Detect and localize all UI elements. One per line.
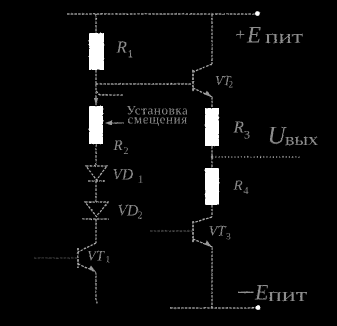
node -E terminal (256, 305, 261, 310)
wire: node A to VT2 base (96, 83, 192, 85)
wire: VT2 emitter to R3 (211, 97, 213, 108)
resistor R1 (89, 33, 104, 70)
svg-text:3: 3 (244, 128, 250, 142)
label R4 (233, 178, 249, 197)
wire: VD1 to VD2 (95, 181, 97, 202)
resistor R4 (205, 168, 219, 205)
wire output line Uout (212, 156, 301, 158)
svg-text:1: 1 (138, 175, 143, 186)
svg-text:+: + (236, 25, 246, 44)
transistor VT3 (193, 217, 212, 247)
wire top rail +E (67, 13, 258, 15)
wire: VT3 emitter to bottom rail (211, 247, 213, 308)
svg-text:VT: VT (87, 249, 105, 265)
wire: VT1 emitter to bottom end (95, 272, 97, 301)
label VT2 (215, 73, 233, 90)
svg-text:1: 1 (128, 49, 134, 61)
label -Eпит (238, 280, 308, 307)
svg-text:VT: VT (209, 224, 227, 240)
label R2 (113, 138, 129, 157)
node output junction (211, 156, 213, 158)
svg-text:вых: вых (285, 130, 319, 149)
label Uвых (268, 122, 319, 149)
resistor R2 (adjustable) (89, 106, 103, 144)
svg-text:2: 2 (124, 146, 129, 157)
svg-text:3: 3 (226, 233, 231, 243)
svg-text:VD: VD (113, 166, 134, 183)
svg-text:E: E (246, 22, 261, 47)
svg-text:2: 2 (229, 80, 234, 90)
label VD2 (118, 202, 143, 221)
svg-text:2: 2 (138, 211, 143, 222)
annotation text Установка смещения (127, 103, 189, 127)
R2 wiper arrowhead (94, 98, 98, 105)
svg-text:VD: VD (118, 202, 139, 219)
transistor VT1 (78, 243, 96, 272)
svg-text:R: R (113, 138, 123, 154)
svg-text:R: R (233, 118, 245, 137)
label R3 (233, 118, 251, 142)
wire left branch: rail to R1 (95, 14, 97, 33)
VT1 emitter arrowhead (89, 266, 97, 273)
svg-text:1: 1 (106, 256, 111, 266)
wire bottom rail -E (170, 307, 259, 309)
wire: node A down to R2 top (95, 84, 97, 106)
svg-text:4: 4 (244, 186, 249, 197)
resistor R3 (205, 108, 219, 146)
node left branch bottom dot (96, 302, 98, 304)
annotation arrow to R2 (105, 121, 124, 126)
label R1 (116, 38, 134, 61)
label +Eпит (236, 22, 304, 48)
wire: VD2 to VT1 collector (95, 219, 97, 243)
VT2 emitter arrowhead (205, 91, 213, 98)
label VD1 (113, 166, 144, 185)
label VT1 (87, 249, 111, 266)
svg-text:смещения: смещения (128, 112, 188, 127)
VT3 emitter arrowhead (205, 241, 213, 248)
wire VT3 base lead (150, 230, 193, 232)
svg-text:R: R (116, 38, 128, 57)
transistor VT2 (193, 64, 212, 97)
svg-text:E: E (254, 280, 269, 305)
svg-text:R: R (233, 178, 243, 194)
wire: R4 bottom to VT3 collector (211, 205, 213, 217)
wire VT1 base lead (34, 257, 78, 259)
label VT3 (209, 224, 232, 243)
wire: R1 bottom to node A (95, 70, 97, 84)
diode VD2 (82, 202, 109, 219)
wire R2 wiper stub (96, 91, 123, 95)
svg-text:пит: пит (268, 285, 308, 306)
wire right branch: rail to VT2 collector (211, 14, 213, 64)
wire: R2 bottom to VD1 (95, 144, 97, 166)
diode VD1 (86, 166, 107, 181)
node +E terminal (255, 11, 260, 16)
wire: R3 to output node (211, 146, 213, 168)
svg-text:пит: пит (265, 27, 304, 48)
